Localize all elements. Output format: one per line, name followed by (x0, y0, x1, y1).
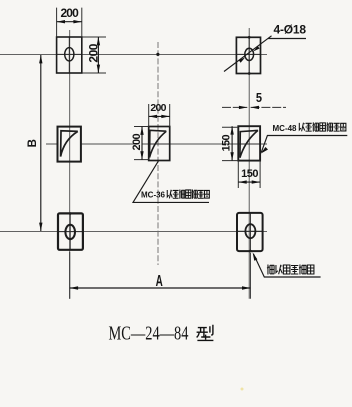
dimension A line (70, 287, 251, 289)
dimension D4 200 extension lines (134, 127, 149, 160)
svg-text:150: 150 (241, 168, 258, 180)
dimension A extension lines (70, 252, 251, 299)
svg-text:MC-36: MC-36 (141, 191, 166, 200)
dimension D6 150 extension lines (222, 127, 238, 160)
bolt hole in S6 (245, 48, 254, 60)
centerline row1 horizontal (0, 53, 267, 55)
dimension D4 200 line (141, 127, 143, 160)
outlet glyph in S2 (61, 131, 78, 157)
centerline column1 vertical (69, 30, 71, 299)
leader 4-d18 arrowhead upper (253, 46, 260, 51)
D1 arrow right (73, 20, 81, 23)
dimension D5 5 dashed line (222, 106, 286, 108)
svg-text:4-Ø18: 4-Ø18 (274, 23, 307, 37)
svg-text:MC-48: MC-48 (273, 124, 298, 133)
anchor plate S7 (bottom-right square) (237, 213, 263, 251)
D5 arrow pointing left (251, 106, 259, 109)
dimension D2 200 extension lines (82, 37, 106, 73)
dimension D7 150 line (238, 181, 260, 183)
D3 arrow left (149, 115, 157, 118)
label MC-48 leader (261, 136, 347, 153)
svg-text:B: B (27, 139, 39, 147)
junction node dots (156, 53, 159, 56)
dimension D2 200 line (97, 37, 99, 73)
outlet glyph in S5 (240, 130, 258, 157)
D4 arrow bottom (140, 151, 143, 159)
bolt hole in S4 (65, 225, 75, 239)
D6 arrow bottom (230, 152, 233, 160)
dimension D1 200 line (57, 21, 82, 23)
dimension D1 200 extension lines (57, 8, 82, 37)
anchor plate S6 (top-right square) (236, 37, 260, 73)
bolt hole in S7 (245, 224, 255, 238)
D5 arrow pointing right (239, 106, 247, 109)
title xing glyph (197, 325, 214, 341)
svg-text:200: 200 (86, 43, 100, 62)
D4 arrow top (140, 127, 143, 135)
ash outlet S2 (middle-left square) (58, 127, 81, 162)
D7 arrow right (252, 180, 260, 183)
ash outlet S3 (middle-center square) (149, 127, 170, 161)
centerline row3 horizontal (0, 231, 267, 233)
D7 arrow left (238, 180, 246, 183)
svg-text:200: 200 (131, 133, 143, 150)
D2 arrow top (97, 37, 100, 45)
dimension D3 200 extension lines (149, 104, 170, 127)
label MC-36 cjk chars (167, 190, 172, 199)
anchor plate S4 (bottom-left square) (58, 213, 83, 249)
D1 arrow left (57, 20, 65, 23)
label foot-plate arrowhead (253, 252, 258, 260)
A arrow left (70, 286, 78, 289)
crosshair dark segments in squares (57, 37, 263, 251)
label foot-plate leader (254, 254, 321, 277)
ash outlet S5 (middle-right square) (238, 126, 260, 160)
leader 4-d18 arrowhead lower (239, 57, 246, 62)
bolt hole in S1 (65, 48, 74, 61)
label MC-48 arrowhead (261, 147, 269, 154)
svg-text:A: A (156, 271, 163, 289)
anchor plate S1 (top-left square) (57, 37, 82, 73)
dimension D7 150 extension lines (238, 161, 260, 188)
dimension B line (40, 55, 42, 231)
D6 arrow top (230, 126, 233, 134)
svg-text:200: 200 (61, 6, 80, 20)
scan speck (241, 388, 244, 391)
leader 4-d18 diagonal (224, 36, 306, 72)
B arrow top (39, 55, 42, 63)
centerline row2 horizontal (46, 143, 267, 145)
A arrow right (242, 286, 250, 289)
svg-text:5: 5 (256, 90, 262, 105)
centerline column2 vertical (157, 42, 159, 265)
label MC-48 cjk chars (299, 123, 304, 132)
centerline column3 vertical (248, 28, 250, 299)
dimension D6 150 line (231, 126, 233, 160)
svg-text:200: 200 (150, 102, 166, 114)
svg-text:150: 150 (220, 134, 232, 151)
label foot-plate cjk chars (267, 265, 274, 275)
svg-text:MC—24—84: MC—24—84 (109, 321, 189, 344)
label MC-36 leader (133, 161, 209, 203)
D3 arrow right (161, 115, 169, 118)
dimension D3 200 line (149, 115, 170, 117)
D2 arrow bottom (97, 65, 100, 73)
B arrow bottom (39, 223, 42, 231)
outlet glyph in S3 (150, 130, 167, 157)
